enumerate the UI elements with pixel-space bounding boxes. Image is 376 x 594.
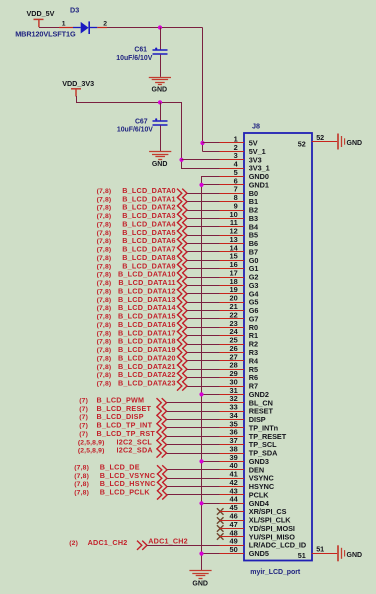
svg-text:GND: GND [347,140,363,147]
pin 6 GND1 [220,184,245,186]
svg-text:D3: D3 [70,5,79,14]
no-connect X on pin 47 [217,525,224,532]
pin 21 G6 [220,310,245,312]
svg-text:50: 50 [229,545,237,554]
svg-text:J8: J8 [252,122,260,131]
wire VDD_5V to diode D3 anode [39,27,59,29]
svg-text:52: 52 [298,139,306,148]
wire GND rail pin5 corner down to bottom ground [202,177,220,571]
pin 39 GND3 [220,461,245,463]
svg-text:myir_LCD_port: myir_LCD_port [250,569,301,576]
svg-text:10uF/6/10V: 10uF/6/10V [116,55,152,62]
pin 25 R2 [220,344,245,346]
pin 38 TP_SDA [220,453,245,455]
svg-text:C61: C61 [134,47,147,54]
svg-text:GND: GND [152,161,168,168]
svg-text:B_LCD_DATA23: B_LCD_DATA23 [118,379,176,388]
pin 14 B7 [220,251,245,253]
capacitor C67 [160,102,162,121]
wire ADC1_CH2 to pin 49 [147,545,219,547]
svg-text:(7,8): (7,8) [97,322,112,329]
svg-text:VDD_3V3: VDD_3V3 [62,79,94,88]
no-connect X on pin 46 [217,517,224,524]
pin 12 B5 [220,235,245,237]
svg-text:B_LCD_PCLK: B_LCD_PCLK [100,488,151,497]
svg-text:(7): (7) [79,406,88,413]
svg-text:(7,8): (7,8) [74,490,89,497]
junction node 3V3 at pin 3 [179,158,183,162]
pin 41 VSYNC [220,478,245,480]
pin 11 B4 [220,226,245,228]
svg-text:(2,5,8,9): (2,5,8,9) [78,439,105,446]
pin 18 G3 [220,285,245,287]
pin 51 right bottom [312,553,338,555]
pin 24 R1 [220,335,245,337]
junction GND at pin 50 [199,552,203,556]
svg-text:ADC1_CH2: ADC1_CH2 [148,536,188,545]
svg-text:(7,8): (7,8) [97,355,112,362]
wire pin 31 GND2 [202,394,220,396]
wire 5V_1 corner to pin 2 [203,151,220,153]
svg-text:(7,8): (7,8) [97,263,112,270]
svg-text:(7,8): (7,8) [97,213,112,220]
svg-text:C67: C67 [135,118,148,125]
wire pin 3 from junction [182,159,220,161]
svg-text:(7): (7) [79,431,88,438]
svg-text:(7): (7) [79,397,88,404]
no-connect X on pin 48 [217,533,224,540]
pin 15 G0 [220,260,245,262]
junction node 5V at C61 [158,25,162,29]
svg-text:GND: GND [347,552,363,559]
pin 42 HSYNC [220,486,245,488]
svg-text:10uF/6/10V: 10uF/6/10V [117,127,153,134]
svg-text:(7,8): (7,8) [97,381,112,388]
pin 4 3V3_1 [220,168,245,170]
svg-text:MBR120VLSFT1G: MBR120VLSFT1G [15,30,76,39]
pin 40 DEN [220,469,245,471]
connector J8 box [244,133,312,561]
svg-text:(7): (7) [79,423,88,430]
wire pin1 from junction [203,142,220,144]
svg-text:(7,8): (7,8) [97,347,112,354]
wire 5V rail down to J8 pin 1 [202,28,204,152]
svg-text:(7,8): (7,8) [97,205,112,212]
pin 10 B3 [220,218,245,220]
capacitor C61 [160,28,162,51]
pin 49 LR/ADC_LCD_ID [220,545,245,547]
svg-text:(7,8): (7,8) [97,364,112,371]
svg-text:52: 52 [316,133,324,142]
pin 43 PCLK [220,494,245,496]
svg-text:(7,8): (7,8) [74,464,89,471]
pin 48 YU/SPI_MISO [220,536,245,538]
junction GND at pin 39 [199,459,203,463]
svg-text:(2,5,8,9): (2,5,8,9) [78,448,105,455]
pin 31 GND2 [220,394,245,396]
svg-text:GND: GND [192,580,208,587]
svg-text:GND5: GND5 [249,549,269,558]
pin 29 R6 [220,377,245,379]
ground symbol for C67 [149,152,171,160]
svg-text:(7,8): (7,8) [97,238,112,245]
pin 30 R7 [220,386,245,388]
svg-text:(7,8): (7,8) [97,188,112,195]
power ground bar symbol bottom right [338,545,345,561]
pin 17 G2 [220,277,245,279]
pin 8 B1 [220,201,245,203]
pin 36 TP_RESET [220,436,245,438]
pin 34 DISP [220,419,245,421]
junction GND at pin 44 [199,501,203,505]
svg-text:(7,8): (7,8) [97,288,112,295]
wire VDD_3V3 to 3V3 rail [77,96,220,169]
power ground bar symbol top right [338,134,345,150]
wire pin 39 GND3 [202,461,220,463]
junction node 5V at pin 1 [200,141,204,145]
svg-text:(7): (7) [79,414,88,421]
svg-text:(7,8): (7,8) [97,221,112,228]
svg-text:1: 1 [62,20,66,27]
svg-text:(7,8): (7,8) [97,305,112,312]
svg-text:2: 2 [103,20,107,27]
svg-text:51: 51 [298,551,306,560]
junction GND at pin 31 [199,392,203,396]
ground symbol bottom [189,571,211,579]
junction GND at pin 6 [199,183,203,187]
pin 32 BL_CN [220,402,245,404]
svg-text:(7,8): (7,8) [97,330,112,337]
pin 46 XL/SPI_CLK [220,520,245,522]
svg-text:51: 51 [316,544,324,553]
pin 2 5V_1 [220,151,245,153]
pin 7 B0 [220,193,245,195]
pin 20 G5 [220,302,245,304]
wire D3 cathode to 5V rail [107,27,203,29]
no-connect X on pin 45 [217,508,224,515]
pin 22 G7 [220,318,245,320]
svg-text:VDD_5V: VDD_5V [27,9,55,18]
pin 28 R5 [220,369,245,371]
pin 44 GND4 [220,503,245,505]
pin 27 R4 [220,360,245,362]
pin 5 GND0 [220,176,245,178]
pin 9 B2 [220,210,245,212]
pin 33 RESET [220,411,245,413]
pin 13 B6 [220,243,245,245]
pin 19 G4 [220,293,245,295]
svg-text:GND: GND [152,86,168,93]
wire pin 6 GND1 [202,184,220,186]
svg-text:(7,8): (7,8) [97,297,112,304]
pin 45 XR/SPI_CS [220,511,245,513]
pin 16 G1 [220,268,245,270]
svg-text:(7,8): (7,8) [97,255,112,262]
wire pin 44 GND4 [202,503,220,505]
junction node 3V3 at C67 [158,100,162,104]
svg-text:(7,8): (7,8) [97,272,112,279]
svg-text:(7,8): (7,8) [97,196,112,203]
svg-text:(7,8): (7,8) [74,473,89,480]
svg-text:(2): (2) [69,540,78,547]
pin 23 R0 [220,327,245,329]
svg-text:I2C2_SDA: I2C2_SDA [117,446,153,455]
svg-text:(7,8): (7,8) [97,280,112,287]
pin 35 TP_INTn [220,427,245,429]
pin 52 right top [312,141,338,143]
wire pin 50 GND5 [202,553,220,555]
svg-text:(7,8): (7,8) [97,247,112,254]
pin 26 R3 [220,352,245,354]
pin 47 YD/SPI_MOSI [220,528,245,530]
svg-text:(7,8): (7,8) [97,230,112,237]
svg-text:(7,8): (7,8) [97,314,112,321]
pin 3 3V3 [220,159,245,161]
svg-text:(7,8): (7,8) [97,339,112,346]
ground symbol for C61 [149,78,171,85]
svg-text:(7,8): (7,8) [74,481,89,488]
diode D3 MBR120VLSFT1G [59,21,107,34]
svg-text:ADC1_CH2: ADC1_CH2 [88,538,128,547]
pin 1 5V [220,142,245,144]
svg-text:(7,8): (7,8) [97,372,112,379]
pin 37 TP_SCL [220,444,245,446]
pin 50 GND5 [220,553,245,555]
